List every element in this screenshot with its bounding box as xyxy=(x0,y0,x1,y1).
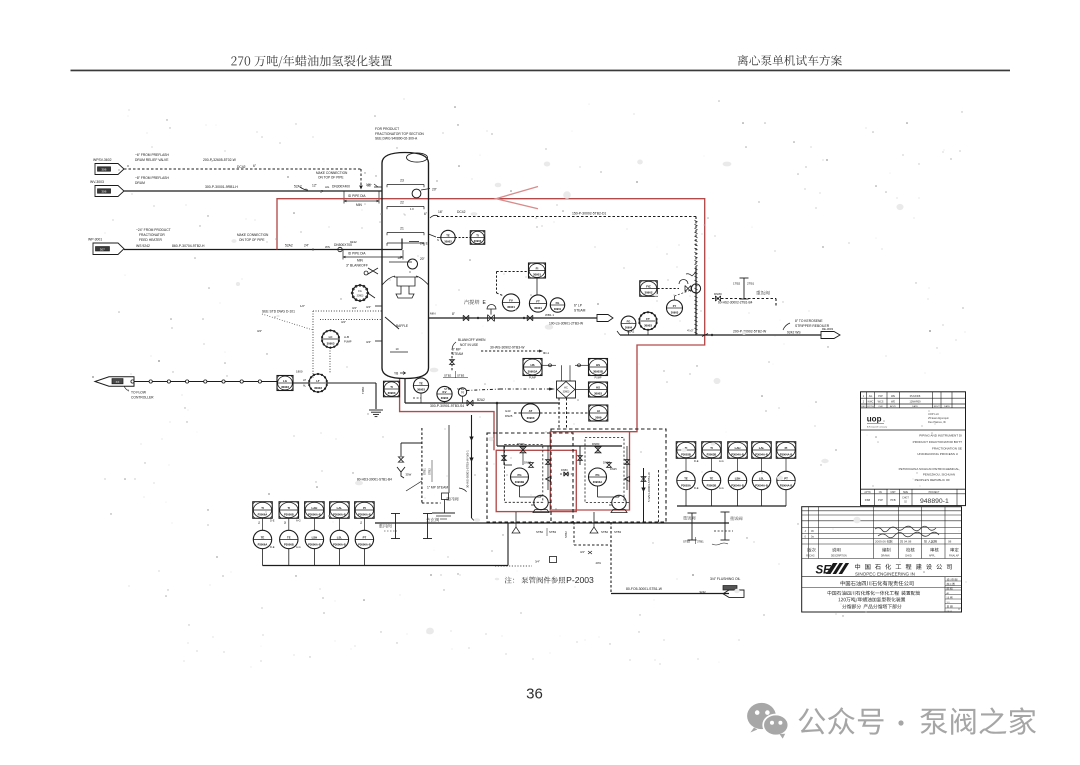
wire feed line to column xyxy=(124,249,382,251)
flushing oil dashed drop xyxy=(610,522,612,593)
SINOPEC rows xyxy=(802,510,962,512)
wire FIC to valve dashed xyxy=(658,288,680,290)
svg-text:LG: LG xyxy=(283,379,288,383)
svg-text:HS: HS xyxy=(596,363,600,367)
svg-text:DESCRIPTION: DESCRIPTION xyxy=(831,556,847,558)
control valve FV-30901 on line xyxy=(488,315,495,322)
instrument PT-P3006A-B xyxy=(355,530,373,548)
svg-text:2009.06 何默: 2009.06 何默 xyxy=(875,539,893,544)
svg-text:AI: AI xyxy=(597,409,600,413)
svg-text:9242: 9242 xyxy=(350,240,357,244)
blind pair 4 xyxy=(724,512,726,540)
svg-text:DN80: DN80 xyxy=(592,442,600,446)
pressure gauge PG-30903A xyxy=(589,468,607,486)
svg-text:TZBD: TZBD xyxy=(361,387,365,394)
svg-text:WCS: WCS xyxy=(878,401,884,404)
blankoff symbol xyxy=(364,268,378,275)
svg-text:DN20: DN20 xyxy=(524,461,532,465)
svg-text:1" MP STEAM: 1" MP STEAM xyxy=(427,486,448,490)
instrument AT-30903 xyxy=(521,404,539,422)
svg-text:31: 31 xyxy=(258,521,261,524)
signature scribbles xyxy=(875,526,936,532)
svg-text:MAKE CONNECTION: MAKE CONNECTION xyxy=(237,233,269,237)
svg-text:307: 307 xyxy=(100,247,105,251)
svg-text:DRUM: DRUM xyxy=(135,181,145,185)
svg-text:PUMP: PUMP xyxy=(595,377,602,380)
svg-text:31: 31 xyxy=(360,521,363,524)
svg-text:200-P-32605-5T02-W: 200-P-32605-5T02-W xyxy=(203,158,237,162)
svg-text:20": 20" xyxy=(432,188,438,192)
wire pump A suction drop xyxy=(503,446,505,465)
svg-text:LH: LH xyxy=(303,379,306,382)
svg-text:1:1: 1:1 xyxy=(947,602,951,604)
svg-text:TO FLOW: TO FLOW xyxy=(131,391,147,395)
svg-text:A-G: A-G xyxy=(296,519,301,523)
wire sample dashed from KV area down xyxy=(496,403,498,446)
instrument AI-3099 square xyxy=(589,405,608,421)
red highlight polyline xyxy=(277,199,705,510)
wire signal line with beads to flow controller xyxy=(134,381,277,383)
off-page arrow kerosene xyxy=(821,332,840,339)
svg-text:WB1.1: WB1.1 xyxy=(545,313,554,317)
svg-text:TI: TI xyxy=(390,385,393,389)
svg-text:06: 06 xyxy=(811,530,814,533)
UOP bottom strip xyxy=(861,488,966,490)
svg-text:REV: REV xyxy=(934,406,939,408)
svg-text:FINAL AP: FINAL AP xyxy=(949,555,959,558)
svg-text:30902: 30902 xyxy=(644,291,652,295)
svg-text:TI: TI xyxy=(710,446,713,450)
svg-text:FG: FG xyxy=(556,301,560,305)
pump B internals xyxy=(607,463,612,468)
client company line xyxy=(841,581,914,586)
svg-text:D-E: D-E xyxy=(270,519,275,523)
svg-text:30903: 30903 xyxy=(327,342,335,346)
svg-text:A-G: A-G xyxy=(719,486,724,490)
instrument LAL-P3006A-B xyxy=(330,502,350,519)
svg-text:6" LP: 6" LP xyxy=(574,304,583,308)
instrument HS-30903B square xyxy=(589,359,608,376)
svg-text:APVD: APVD xyxy=(890,405,896,408)
UOP title block border xyxy=(861,392,966,506)
watermark text xyxy=(799,707,884,734)
svg-text:STB2: STB2 xyxy=(683,540,690,544)
blind pair 3 with cn label xyxy=(691,513,693,540)
svg-text:3" MP: 3" MP xyxy=(452,348,461,352)
svg-text:D-E: D-E xyxy=(270,545,275,549)
svg-text:3/4": 3/4" xyxy=(366,305,371,309)
instrument FY-30903 xyxy=(667,300,683,316)
svg-text:XX: XX xyxy=(116,380,120,384)
svg-text:52A2: 52A2 xyxy=(285,244,293,248)
svg-text:16": 16" xyxy=(366,183,371,187)
Y strainer loop xyxy=(401,442,422,444)
svg-text:LSH: LSH xyxy=(735,476,741,480)
column nozzle 24in right xyxy=(409,241,419,243)
wire kerosene reboiler line xyxy=(620,334,821,336)
svg-text:PG: PG xyxy=(595,473,599,477)
note reference P-2003 xyxy=(505,577,565,584)
inner dashed box pump A xyxy=(505,445,543,503)
svg-text:30903: 30903 xyxy=(594,392,602,396)
pump A internals xyxy=(529,463,534,468)
tray 10 mark xyxy=(390,351,408,353)
red arrowhead xyxy=(496,187,538,209)
svg-text:P3004A-B: P3004A-B xyxy=(780,453,793,457)
svg-text:PENGZHOU, SICHUAN: PENGZHOU, SICHUAN xyxy=(923,473,955,477)
ID pipe dia note xyxy=(344,200,379,202)
svg-text:3/4": 3/4" xyxy=(257,329,262,333)
column C-30901 fractionator shell xyxy=(382,153,429,379)
svg-text:PEOPLE'S REPUBLIC OF: PEOPLE'S REPUBLIC OF xyxy=(915,478,951,482)
svg-text:9D-1: 9D-1 xyxy=(543,351,550,355)
svg-text:22: 22 xyxy=(400,201,404,205)
svg-text:P-2003: P-2003 xyxy=(566,575,594,585)
svg-text:CHKD.: CHKD. xyxy=(905,556,913,558)
svg-text:BAFFLE: BAFFLE xyxy=(396,324,408,328)
instrument HC-30903 diamond xyxy=(557,381,576,398)
svg-text:LSH: LSH xyxy=(312,535,318,539)
instrument LT-30903 scalloped xyxy=(309,374,327,392)
svg-text:RECHG: RECHG xyxy=(806,556,815,558)
svg-text:3" BLANKOFF: 3" BLANKOFF xyxy=(346,264,368,268)
svg-text:PFB: PFB xyxy=(890,498,895,502)
instrument TE-30903 circle upper xyxy=(441,230,455,244)
instrument FV-30901 bubble xyxy=(502,294,519,311)
svg-text:P&B: P&B xyxy=(865,498,871,502)
svg-text:A-G: A-G xyxy=(296,545,301,549)
wire flushing oil line xyxy=(611,593,729,595)
svg-text:05JUN08: 05JUN08 xyxy=(910,395,921,398)
wire drain with ground xyxy=(375,383,377,409)
svg-text:PIPING AND INSTRUMENT DI: PIPING AND INSTRUMENT DI xyxy=(919,434,962,438)
svg-text:~6" FROM PREFLASH: ~6" FROM PREFLASH xyxy=(135,153,169,157)
svg-text:STB2: STB2 xyxy=(444,374,452,378)
svg-text:30903: 30903 xyxy=(671,310,679,314)
instrument TI-P3003B right xyxy=(702,442,722,459)
svg-text:WPSV-3602: WPSV-3602 xyxy=(93,158,112,162)
svg-text:100-LS-30901-2TB3-W: 100-LS-30901-2TB3-W xyxy=(549,322,584,326)
svg-text:B2A2: B2A2 xyxy=(477,398,485,402)
svg-text:A-G: A-G xyxy=(719,459,724,463)
svg-text:ON TOP OF PIPE: ON TOP OF PIPE xyxy=(318,176,344,180)
svg-text:08: 08 xyxy=(948,540,952,544)
svg-text:YB: YB xyxy=(394,372,398,376)
svg-text:30903: 30903 xyxy=(644,324,652,328)
svg-text:2: 2 xyxy=(863,401,865,404)
svg-text:300-P-30001-9RB1-H: 300-P-30001-9RB1-H xyxy=(205,185,238,189)
svg-text:STB3: STB3 xyxy=(549,530,556,534)
svg-text:P3004A-B: P3004A-B xyxy=(731,483,744,487)
svg-text:3/4": 3/4" xyxy=(580,550,585,554)
svg-text:P3004A-B: P3004A-B xyxy=(731,453,744,457)
wire LT to drain xyxy=(327,382,376,384)
SINOPEC columns upper xyxy=(808,507,810,559)
svg-text:P3006A-B: P3006A-B xyxy=(358,542,371,546)
svg-text:2TB1: 2TB1 xyxy=(747,282,755,286)
svg-text:30903: 30903 xyxy=(388,391,396,395)
svg-text:AT: AT xyxy=(529,409,533,413)
instrument FI-30901 square xyxy=(529,263,546,278)
red path near TI-30903 xyxy=(400,379,494,451)
wire dashed line 150-P-30002-5TB2-D1 xyxy=(437,216,696,218)
pump A drain w strainer xyxy=(515,512,517,523)
svg-text:19: 19 xyxy=(397,256,401,260)
svg-text:3099: 3099 xyxy=(595,415,602,419)
svg-text:BLANKOFF WHEN: BLANKOFF WHEN xyxy=(458,338,486,342)
ID pipe dia note 2 xyxy=(343,256,403,258)
MP steam vertical dashed xyxy=(421,428,423,503)
svg-text:OU: OU xyxy=(879,492,883,494)
svg-text:HC: HC xyxy=(564,386,568,390)
svg-text:12": 12" xyxy=(312,184,318,188)
svg-text:25 East Algonquin: 25 East Algonquin xyxy=(928,416,949,420)
svg-text:TI: TI xyxy=(476,233,479,237)
instrument TE-P3006B xyxy=(280,530,298,548)
svg-text:4"x3": 4"x3" xyxy=(687,329,694,333)
svg-text:30903: 30903 xyxy=(314,386,322,390)
svg-text:LAH: LAH xyxy=(735,446,741,450)
svg-text:12MAR09: 12MAR09 xyxy=(909,401,921,404)
svg-text:STB2: STB2 xyxy=(536,530,543,534)
svg-text:30903: 30903 xyxy=(441,396,449,400)
svg-text:60-HS2-30002-2TB1-B4: 60-HS2-30002-2TB1-B4 xyxy=(718,301,753,305)
svg-text:P3004A-B: P3004A-B xyxy=(755,453,768,457)
svg-text:P3006B: P3006B xyxy=(284,542,294,546)
svg-text:9242: 9242 xyxy=(700,590,707,594)
svg-text:STB2: STB2 xyxy=(428,468,432,475)
svg-text:P3006A-B: P3006A-B xyxy=(358,513,371,517)
pump B drain w strainer xyxy=(593,512,595,523)
instrument LSH-P3004A-B right xyxy=(728,471,746,489)
svg-text:30903: 30903 xyxy=(281,385,289,389)
svg-text:DRAWN: DRAWN xyxy=(881,555,890,558)
svg-text:AG: AG xyxy=(325,185,330,189)
svg-text:WE: WE xyxy=(891,401,895,404)
wire pump B suction drop xyxy=(579,446,581,465)
svg-text:FIC: FIC xyxy=(646,284,652,288)
wire vertical pipe with tick marks xyxy=(695,268,697,335)
svg-text:PG: PG xyxy=(517,473,521,477)
svg-text:D-E: D-E xyxy=(694,459,699,463)
svg-text:UNICRACKING PROCESS U: UNICRACKING PROCESS U xyxy=(917,452,958,456)
svg-text:CHGT: CHGT xyxy=(902,497,909,500)
svg-text:30903A: 30903A xyxy=(528,370,538,374)
dashed enclosure pump A xyxy=(487,433,573,522)
wire column skirt drop xyxy=(404,379,406,404)
svg-text:WS 9242: WS 9242 xyxy=(136,244,150,248)
svg-text:MIN: MIN xyxy=(430,312,436,316)
column left nozzle 16in xyxy=(374,186,382,188)
instrument PT-P3004A-B right xyxy=(777,471,795,489)
svg-text:WV-3003: WV-3003 xyxy=(90,180,104,184)
svg-text:KWC: KWC xyxy=(868,401,874,404)
svg-text:张 人其明: 张 人其明 xyxy=(924,539,937,544)
instrument LSL-P3006A-B xyxy=(330,530,348,548)
wire LP steam line xyxy=(429,317,598,319)
wire AT dashed xyxy=(540,412,589,414)
svg-text:ON TOP OF PIPE: ON TOP OF PIPE xyxy=(239,238,265,242)
instrument PI-P3004A-B right xyxy=(776,442,796,459)
svg-text:16": 16" xyxy=(438,210,444,214)
svg-text:30-WS-30902-9TB3-W: 30-WS-30902-9TB3-W xyxy=(490,346,525,350)
column internals trays xyxy=(387,184,424,186)
svg-text:TE: TE xyxy=(261,535,265,539)
instrument FG-30901 xyxy=(550,298,564,312)
svg-text:8" TO KEROSENE: 8" TO KEROSENE xyxy=(795,319,823,323)
drain collect dashes xyxy=(573,522,575,545)
svg-text:3/4": 3/4" xyxy=(366,340,371,344)
svg-text:DN80: DN80 xyxy=(714,292,722,296)
svg-text:PJP: PJP xyxy=(878,498,883,502)
svg-text:1/2": 1/2" xyxy=(300,304,305,308)
svg-text:1800: 1800 xyxy=(296,370,303,374)
svg-text:HS: HS xyxy=(530,363,534,367)
svg-text:P3004A-B: P3004A-B xyxy=(755,483,768,487)
svg-text:30903: 30903 xyxy=(357,295,364,298)
svg-text:LAH: LAH xyxy=(312,506,318,510)
svg-text:P3006A-B: P3006A-B xyxy=(308,513,321,517)
instrument HS square right xyxy=(589,382,608,397)
svg-text:30903B: 30903B xyxy=(593,370,603,374)
svg-text:80-FO5-30001-STB1-W: 80-FO5-30001-STB1-W xyxy=(626,587,663,591)
svg-text:30901: 30901 xyxy=(507,305,515,309)
pump P-30903A symbol xyxy=(534,495,548,509)
svg-text:36: 36 xyxy=(526,686,543,703)
globe valve on vertical pipe xyxy=(691,284,700,293)
wire drain line to column xyxy=(124,190,382,192)
svg-text:FT: FT xyxy=(646,317,650,321)
svg-text:P3006A-B: P3006A-B xyxy=(308,542,321,546)
column nozzle 20in circle xyxy=(408,259,418,269)
svg-text:TI: TI xyxy=(288,506,291,510)
svg-text:32: 32 xyxy=(284,521,287,524)
svg-text:P3003A: P3003A xyxy=(681,483,691,487)
instrument TE-P3003B right xyxy=(702,471,720,489)
off-page arrow flushing oil xyxy=(723,590,744,597)
svg-text:PETROCHINA SICHUAN PETROCHEMIC: PETROCHINA SICHUAN PETROCHEMICAL, xyxy=(899,467,961,471)
svg-text:8": 8" xyxy=(452,312,455,316)
instrument TE-P3006A xyxy=(253,530,271,548)
svg-text:SINOPEC ENGINEERING IN: SINOPEC ENGINEERING IN xyxy=(855,571,915,576)
wire HS signal links xyxy=(542,364,556,366)
svg-text:BY/TH: BY/TH xyxy=(867,406,874,408)
instrument TI-P3003B right xyxy=(676,442,696,459)
svg-text:3/4": 3/4" xyxy=(352,306,357,310)
svg-text:AG: AG xyxy=(869,395,873,398)
svg-text:306: 306 xyxy=(101,190,106,194)
svg-text:LAL: LAL xyxy=(759,446,765,450)
instrument TE-30903 bottom xyxy=(413,378,428,393)
svg-text:N: N xyxy=(461,391,464,395)
wire dashed DN80 steam branch xyxy=(712,298,776,300)
column left nozzle lower xyxy=(375,340,382,342)
svg-text:P3006A: P3006A xyxy=(258,513,268,517)
svg-text:TE: TE xyxy=(419,381,423,385)
svg-text:STB3: STB3 xyxy=(457,374,465,378)
wire TE to TI dashed xyxy=(455,237,470,239)
svg-text:G43: G43 xyxy=(505,409,511,413)
svg-text:HS: HS xyxy=(596,385,600,389)
wire FI dashed left xyxy=(497,271,529,273)
svg-text:FRACTIONATION SE: FRACTIONATION SE xyxy=(932,447,962,451)
svg-text:1TB2: 1TB2 xyxy=(733,282,741,286)
svg-text:WS: WS xyxy=(325,245,330,249)
svg-text:PUMP: PUMP xyxy=(529,377,536,380)
svg-text:STB2: STB2 xyxy=(564,531,568,538)
valve DN80 A xyxy=(520,447,526,453)
svg-text:30901: 30901 xyxy=(533,273,541,277)
svg-text:FG: FG xyxy=(358,290,362,293)
svg-text:P3003B: P3003B xyxy=(681,453,691,457)
column left nozzle 3/4in upper xyxy=(375,305,382,307)
svg-text:CHK: CHK xyxy=(878,406,883,408)
svg-text:3/4": 3/4" xyxy=(535,560,540,564)
svg-text:PI: PI xyxy=(363,506,366,510)
wire dotted signal lines to column xyxy=(313,310,382,312)
column internal chimney xyxy=(394,277,418,298)
svg-text:300-P-30901-9TB3-S4: 300-P-30901-9TB3-S4 xyxy=(430,404,464,408)
instrument TI-P3006A xyxy=(253,502,273,519)
svg-text:PT: PT xyxy=(363,535,367,539)
svg-text:SEE STD DWG D-101: SEE STD DWG D-101 xyxy=(262,310,295,314)
right info column xyxy=(944,577,946,612)
svg-text:30901: 30901 xyxy=(554,307,562,311)
svg-text:P3003B: P3003B xyxy=(707,483,717,487)
small stub to column at 237 xyxy=(429,234,437,237)
svg-text:LC: LC xyxy=(329,335,334,339)
instrument LAL-P3004A-B right xyxy=(752,442,772,459)
svg-text:09.06: 09.06 xyxy=(947,611,953,613)
svg-text:150-P-30002-5TB2-D1: 150-P-30002-5TB2-D1 xyxy=(572,212,606,216)
svg-text:30903: 30903 xyxy=(417,388,425,392)
svg-text:N: N xyxy=(437,238,439,242)
svg-text:30903A: 30903A xyxy=(593,480,602,484)
svg-text:REV: REV xyxy=(861,406,866,408)
wire drain header y=523 xyxy=(375,522,729,524)
UOP revision rows xyxy=(861,397,966,399)
feed riser inside column xyxy=(382,249,402,251)
SINOPEC cn name xyxy=(855,564,952,570)
svg-text:APPL.: APPL. xyxy=(929,555,936,558)
svg-text:~8" FROM PREFLASH: ~8" FROM PREFLASH xyxy=(135,176,169,180)
svg-text:APTN: APTN xyxy=(864,491,870,494)
svg-text:P3003B: P3003B xyxy=(707,453,717,457)
wire steam trap drop xyxy=(448,425,450,493)
svg-text:TI: TI xyxy=(261,506,264,510)
instrument FIC-30902 square xyxy=(640,281,658,297)
svg-text:1 F: 1 F xyxy=(410,207,414,211)
svg-text:STEAM: STEAM xyxy=(574,309,586,313)
vortex breaker FG-30903 gear circle xyxy=(352,285,368,301)
svg-text:FRACTIONATOR: FRACTIONATOR xyxy=(139,233,165,237)
svg-text:TE: TE xyxy=(446,233,450,237)
dashed enclosure pump B xyxy=(551,429,666,522)
svg-text:30903: 30903 xyxy=(527,416,535,420)
svg-text:3/4": 3/4" xyxy=(341,320,346,324)
svg-text:3/4" FLUSHING OIL: 3/4" FLUSHING OIL xyxy=(710,577,741,581)
svg-text:860-P-30704-9TB2-H: 860-P-30704-9TB2-H xyxy=(172,244,205,248)
header title right: 离心泵单机试车方案 xyxy=(738,55,842,66)
instrument LAH-P3006A-B xyxy=(305,502,325,519)
svg-text:KV: KV xyxy=(443,390,447,394)
svg-text:3TB1: 3TB1 xyxy=(697,540,704,544)
relief fitting top of pipe xyxy=(686,272,696,276)
svg-text:CONTROLLER: CONTROLLER xyxy=(131,396,154,400)
svg-text:5-WS3-30003-STB3-W: 5-WS3-30003-STB3-W xyxy=(647,472,651,502)
blind pair 1 xyxy=(395,514,397,539)
wire dashed relief line xyxy=(124,168,361,170)
